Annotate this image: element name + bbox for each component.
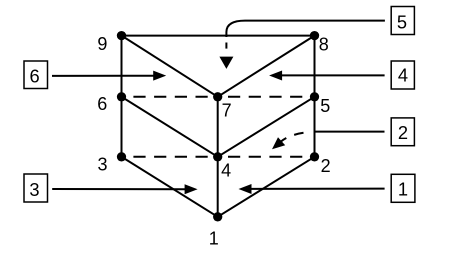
arrow from box 4 (shaft) (281, 74, 385, 76)
svg-text:5: 5 (397, 11, 407, 32)
svg-text:4: 4 (221, 161, 231, 181)
edge 7-4 (center vertical) (217, 97, 219, 157)
arrow from box 1 (shaft) (250, 188, 385, 190)
dashed arrow from box 5 (head) (219, 57, 233, 69)
node 6 dot (117, 92, 126, 101)
leader from box 2 (solid) (315, 131, 385, 133)
svg-text:1: 1 (398, 179, 408, 200)
svg-text:3: 3 (29, 179, 39, 200)
svg-text:6: 6 (30, 66, 40, 87)
arrow from box 6 (shaft) (52, 75, 154, 77)
dashed arrow from box 5 (dash) (225, 43, 227, 49)
arrow from box 6 (head) (153, 71, 166, 81)
callout box 1 (391, 174, 415, 202)
svg-text:3: 3 (97, 155, 107, 175)
edge 9-8 (top horizontal) (122, 35, 315, 37)
edge 5-4 (218, 97, 315, 157)
svg-text:9: 9 (97, 34, 107, 54)
svg-text:5: 5 (320, 96, 330, 116)
edge 2-1 (218, 157, 315, 217)
svg-text:2: 2 (398, 122, 408, 143)
svg-text:4: 4 (398, 65, 408, 86)
dashed arrow from box 2 (head) (272, 137, 285, 149)
fold line 7-5 (dashed) (218, 96, 315, 98)
svg-text:8: 8 (319, 34, 329, 54)
arrow from box 4 (head) (269, 71, 282, 81)
node 4 dot (213, 152, 222, 161)
edge 8-7 (218, 36, 315, 97)
edge 3-1 (122, 157, 218, 217)
arrow from box 3 (head) (185, 184, 198, 194)
edge 5-2 (right vertical) (314, 97, 316, 157)
arrow from box 3 (shaft) (52, 188, 186, 190)
arrow from box 1 (head) (239, 184, 252, 194)
svg-text:2: 2 (321, 156, 331, 176)
callout box 3 (24, 174, 48, 202)
callout box 2 (391, 118, 414, 146)
fold line 6-7 (dashed) (122, 96, 218, 98)
svg-text:1: 1 (209, 228, 219, 248)
node 3 dot (117, 152, 126, 161)
edge 8-5 (right vertical) (314, 36, 316, 97)
node 9 dot (117, 31, 126, 40)
node 1 dot (213, 212, 222, 221)
leader from box 5 (curved solid) (226, 21, 385, 37)
callout box 5 (391, 7, 414, 35)
edge 9-7 (122, 36, 218, 97)
node 2 dot (310, 152, 319, 161)
edge 6-3 (left vertical) (121, 97, 123, 157)
callout box 6 (24, 61, 48, 89)
fold line 3-4 (dashed) (122, 156, 218, 158)
edge 9-6 (left vertical) (121, 36, 123, 97)
callout box 4 (391, 61, 414, 89)
svg-text:7: 7 (222, 100, 232, 120)
svg-text:6: 6 (97, 94, 107, 114)
node 7 dot (213, 92, 222, 101)
node 5 dot (310, 92, 319, 101)
edge 4-1 (center vertical) (217, 157, 219, 217)
fold line 4-2 (dashed) (218, 156, 315, 158)
edge 6-4 (122, 97, 218, 157)
dashed arrow from box 2 (curved dashes) (281, 133, 304, 142)
node 8 dot (310, 31, 319, 40)
